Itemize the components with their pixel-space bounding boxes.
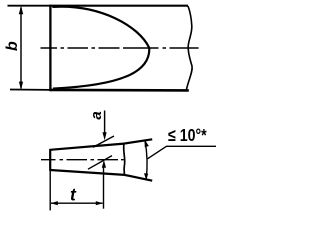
dimension a: lower arrow (up) [102, 160, 106, 168]
side view: tip left edge [49, 149, 51, 171]
dimension b: bottom arrow [19, 82, 23, 90]
side view: wavy boundary of ground face [124, 144, 125, 175]
dimension a: lower oblique extension tick [88, 156, 112, 170]
side view: bottom ground flat [50, 170, 124, 175]
side view: top body taper line [124, 139, 152, 143]
top view: break line [186, 6, 192, 90]
top view: bottom extension line [10, 89, 51, 91]
angle dimension: leader line [148, 146, 217, 159]
top view: bottom edge [51, 89, 189, 92]
side view: bottom body taper line [125, 175, 153, 181]
dimension t: right arrow [96, 201, 103, 205]
angle dimension: top arrow [145, 140, 149, 147]
dimension a: upper dimension line [104, 111, 106, 135]
angle dimension: bottom arrow [144, 173, 148, 180]
svg-text:a: a [88, 111, 105, 119]
svg-text:b: b [4, 41, 21, 51]
top view: top edge [51, 5, 189, 7]
dimension t: left extension line [49, 171, 51, 211]
dimension a: upper arrow (down) [103, 132, 107, 140]
dimension b: top arrow [19, 6, 24, 14]
side view: top ground flat [50, 144, 124, 150]
side view: centerline [41, 159, 124, 161]
dimension t: dimension line [51, 202, 103, 204]
dimension a: upper oblique extension tick [93, 136, 114, 147]
dimension a: lower dimension line, also right extension of t [103, 166, 105, 209]
top view: centerline [41, 47, 199, 49]
top view: parabolic ground-face boundary [52, 7, 149, 89]
top view: left edge [49, 5, 51, 92]
svg-text:≤ 10°*: ≤ 10°* [168, 127, 207, 146]
dimension b: dimension line [20, 8, 22, 89]
top view: top extension line [8, 5, 51, 7]
angle dimension: arc [145, 140, 147, 180]
dimension t: left arrow [51, 201, 58, 205]
